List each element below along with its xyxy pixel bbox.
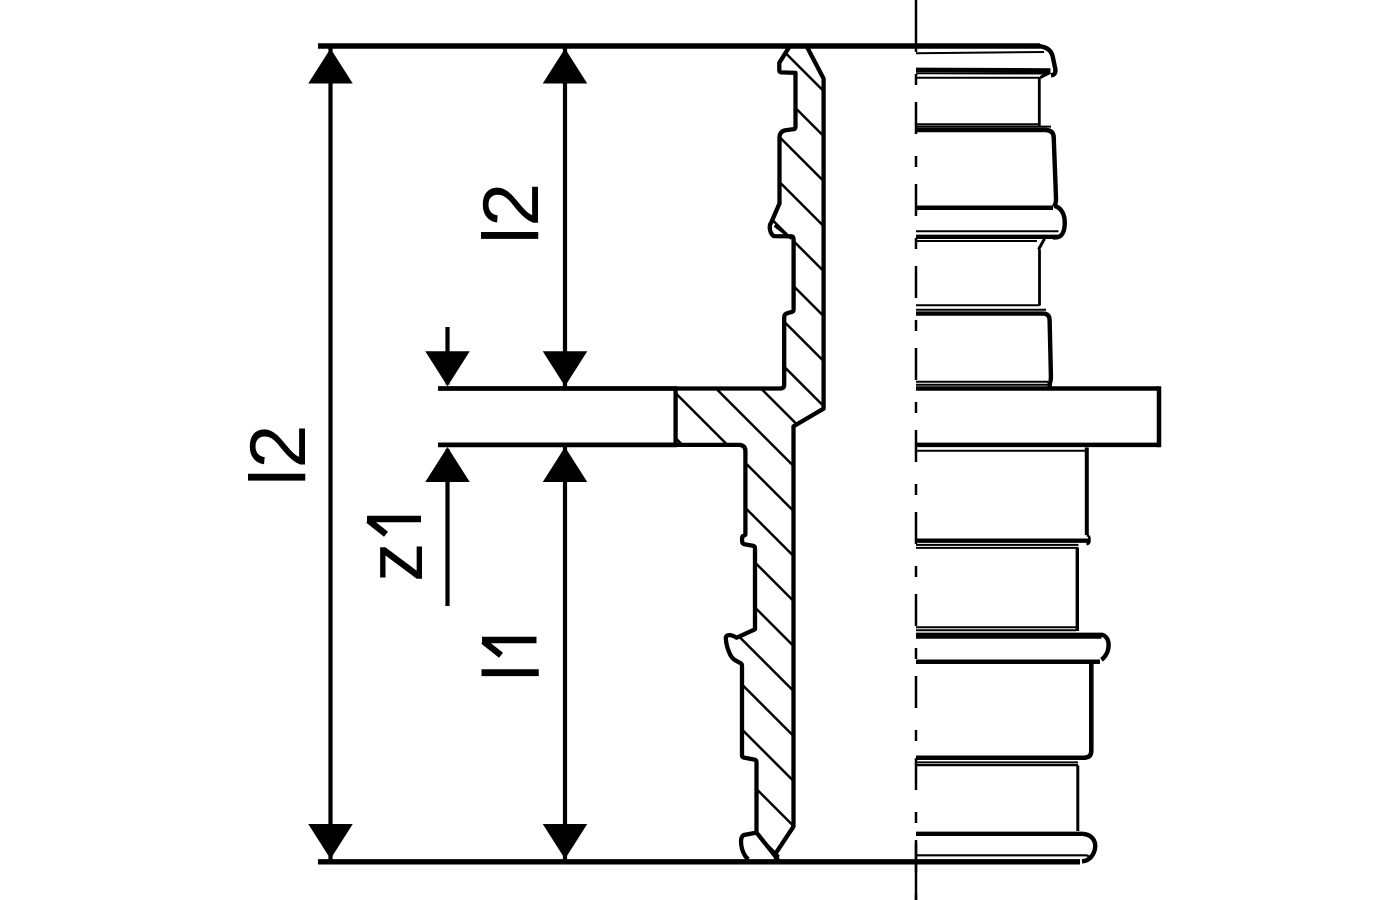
svg-text:l: l [467,664,556,682]
svg-text:l2: l2 [233,425,322,487]
svg-text:z: z [350,543,439,583]
svg-text:l2: l2 [466,183,555,245]
